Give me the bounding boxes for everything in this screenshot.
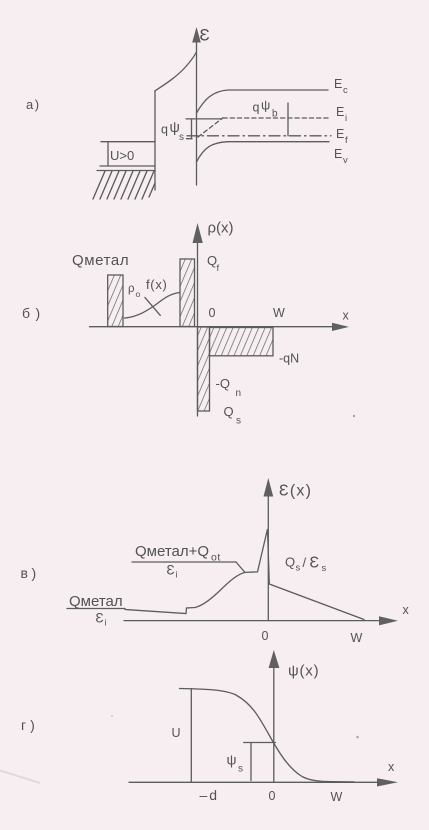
svg-text:ρ(x): ρ(x) — [208, 220, 234, 237]
metal edge vertical — [154, 91, 156, 190]
svg-text:i: i — [105, 618, 107, 628]
svg-text:–d: –d — [200, 787, 220, 803]
svg-text:s: s — [179, 132, 184, 143]
svg-text:q: q — [253, 101, 260, 115]
svg-text:c: c — [343, 85, 348, 96]
psi_s level line — [244, 742, 276, 744]
Ei dashed horizontal — [223, 117, 330, 119]
svg-text:Ɛ: Ɛ — [96, 611, 104, 626]
Qmetal+Qot/Ei fraction bar — [132, 561, 236, 563]
svg-text:s: s — [296, 563, 301, 574]
svg-text:Qметал: Qметал — [72, 252, 129, 269]
svg-text:f: f — [345, 135, 348, 146]
svg-text:Qметал+Q: Qметал+Q — [135, 543, 209, 560]
svg-text:x: x — [343, 309, 350, 323]
svg-text:-Q: -Q — [216, 376, 230, 391]
field axis arrowhead — [264, 478, 274, 497]
svg-text:s: s — [322, 563, 327, 574]
V>0 box left — [107, 142, 109, 166]
svg-text:f: f — [217, 263, 220, 274]
qpsi_b vertical line — [287, 103, 289, 136]
metal charge bar — [108, 275, 123, 327]
metal hatch top line — [97, 170, 155, 172]
svg-text:E: E — [336, 127, 344, 141]
svg-text:W: W — [351, 631, 363, 645]
V ordinate line — [190, 689, 192, 783]
qpsi_s bulk Ei level line — [186, 118, 222, 120]
svg-text:s: s — [236, 416, 241, 427]
svg-text:0: 0 — [262, 629, 269, 643]
svg-text:б): б) — [22, 305, 46, 321]
rho axis arrowhead — [193, 223, 203, 243]
svg-text:o: o — [136, 289, 141, 299]
metal hatch region — [93, 171, 155, 199]
qpsi_s bracket — [187, 119, 193, 139]
field profile line — [125, 529, 364, 620]
Ef dash-dot line — [187, 135, 331, 137]
E axis vertical — [196, 41, 198, 185]
V>0 box bottom — [100, 165, 155, 167]
svg-text:Ɛ(x): Ɛ(x) — [279, 483, 312, 500]
scan crease artifact — [0, 771, 40, 784]
x axis b arrowhead — [332, 323, 349, 331]
f(x) charge curve — [124, 293, 179, 319]
fraction bar connector — [236, 562, 245, 573]
svg-text:ρ: ρ — [128, 283, 135, 295]
svg-text:v: v — [343, 155, 348, 166]
svg-text:E: E — [336, 105, 344, 119]
f(x) strike line — [145, 297, 160, 315]
svg-text:E: E — [334, 77, 342, 91]
psi axis arrowhead — [269, 650, 280, 668]
svg-text:f(x): f(x) — [146, 277, 168, 292]
svg-text:ψ: ψ — [227, 752, 237, 768]
insulator band curve — [155, 52, 197, 91]
x axis c arrowhead — [379, 616, 398, 625]
svg-text:Q: Q — [224, 404, 234, 419]
svg-text:а): а) — [26, 97, 41, 112]
-Qn bar — [198, 327, 210, 411]
scan speck — [111, 715, 113, 717]
Ev band curve — [197, 142, 330, 162]
svg-text:n: n — [236, 388, 242, 399]
svg-text:x: x — [403, 603, 410, 617]
svg-text:U>0: U>0 — [110, 148, 134, 163]
field axis vertical — [267, 496, 269, 621]
svg-text:0: 0 — [269, 789, 276, 803]
Ei dashed diagonal — [198, 118, 223, 137]
svg-text:0: 0 — [209, 306, 216, 320]
svg-text:E: E — [334, 147, 342, 161]
scan speck — [353, 415, 355, 417]
svg-text:ψ: ψ — [261, 98, 270, 113]
svg-text:Ɛ: Ɛ — [200, 26, 210, 45]
svg-text:в): в) — [21, 565, 40, 581]
svg-text:Qметал: Qметал — [69, 593, 123, 610]
svg-text:b: b — [272, 109, 278, 120]
svg-text:U: U — [172, 726, 181, 740]
svg-text:Q: Q — [285, 555, 295, 570]
svg-text:ot: ot — [211, 552, 221, 564]
scan speck — [356, 736, 359, 739]
svg-text:i: i — [176, 570, 178, 580]
svg-text:i: i — [345, 113, 347, 124]
svg-text:W: W — [273, 306, 285, 320]
svg-text:-qN: -qN — [279, 352, 299, 366]
Qf bar — [180, 259, 195, 327]
psi axis vertical — [273, 667, 275, 782]
svg-text:г): г) — [21, 717, 39, 733]
-qN rectangle — [210, 328, 274, 356]
potential curve — [180, 689, 355, 782]
rho axis vertical — [197, 241, 199, 416]
x axis b — [90, 326, 335, 328]
svg-text:Ɛ: Ɛ — [167, 563, 175, 578]
svg-text:Ɛ: Ɛ — [310, 555, 320, 572]
svg-text:ψ(x): ψ(x) — [288, 663, 319, 680]
Qmetal/Ei underline — [67, 608, 125, 610]
x axis c — [124, 620, 380, 622]
svg-text:/: / — [303, 555, 307, 570]
svg-text:x: x — [388, 760, 395, 774]
E axis arrowhead — [192, 27, 201, 43]
x axis d — [129, 781, 378, 783]
Ec band curve — [197, 90, 329, 113]
x axis d arrowhead — [377, 778, 398, 786]
psi_s ordinate line — [250, 743, 252, 781]
V>0 box top — [101, 141, 155, 143]
svg-text:q: q — [161, 123, 168, 137]
svg-text:s: s — [238, 764, 243, 775]
svg-text:W: W — [331, 790, 343, 804]
